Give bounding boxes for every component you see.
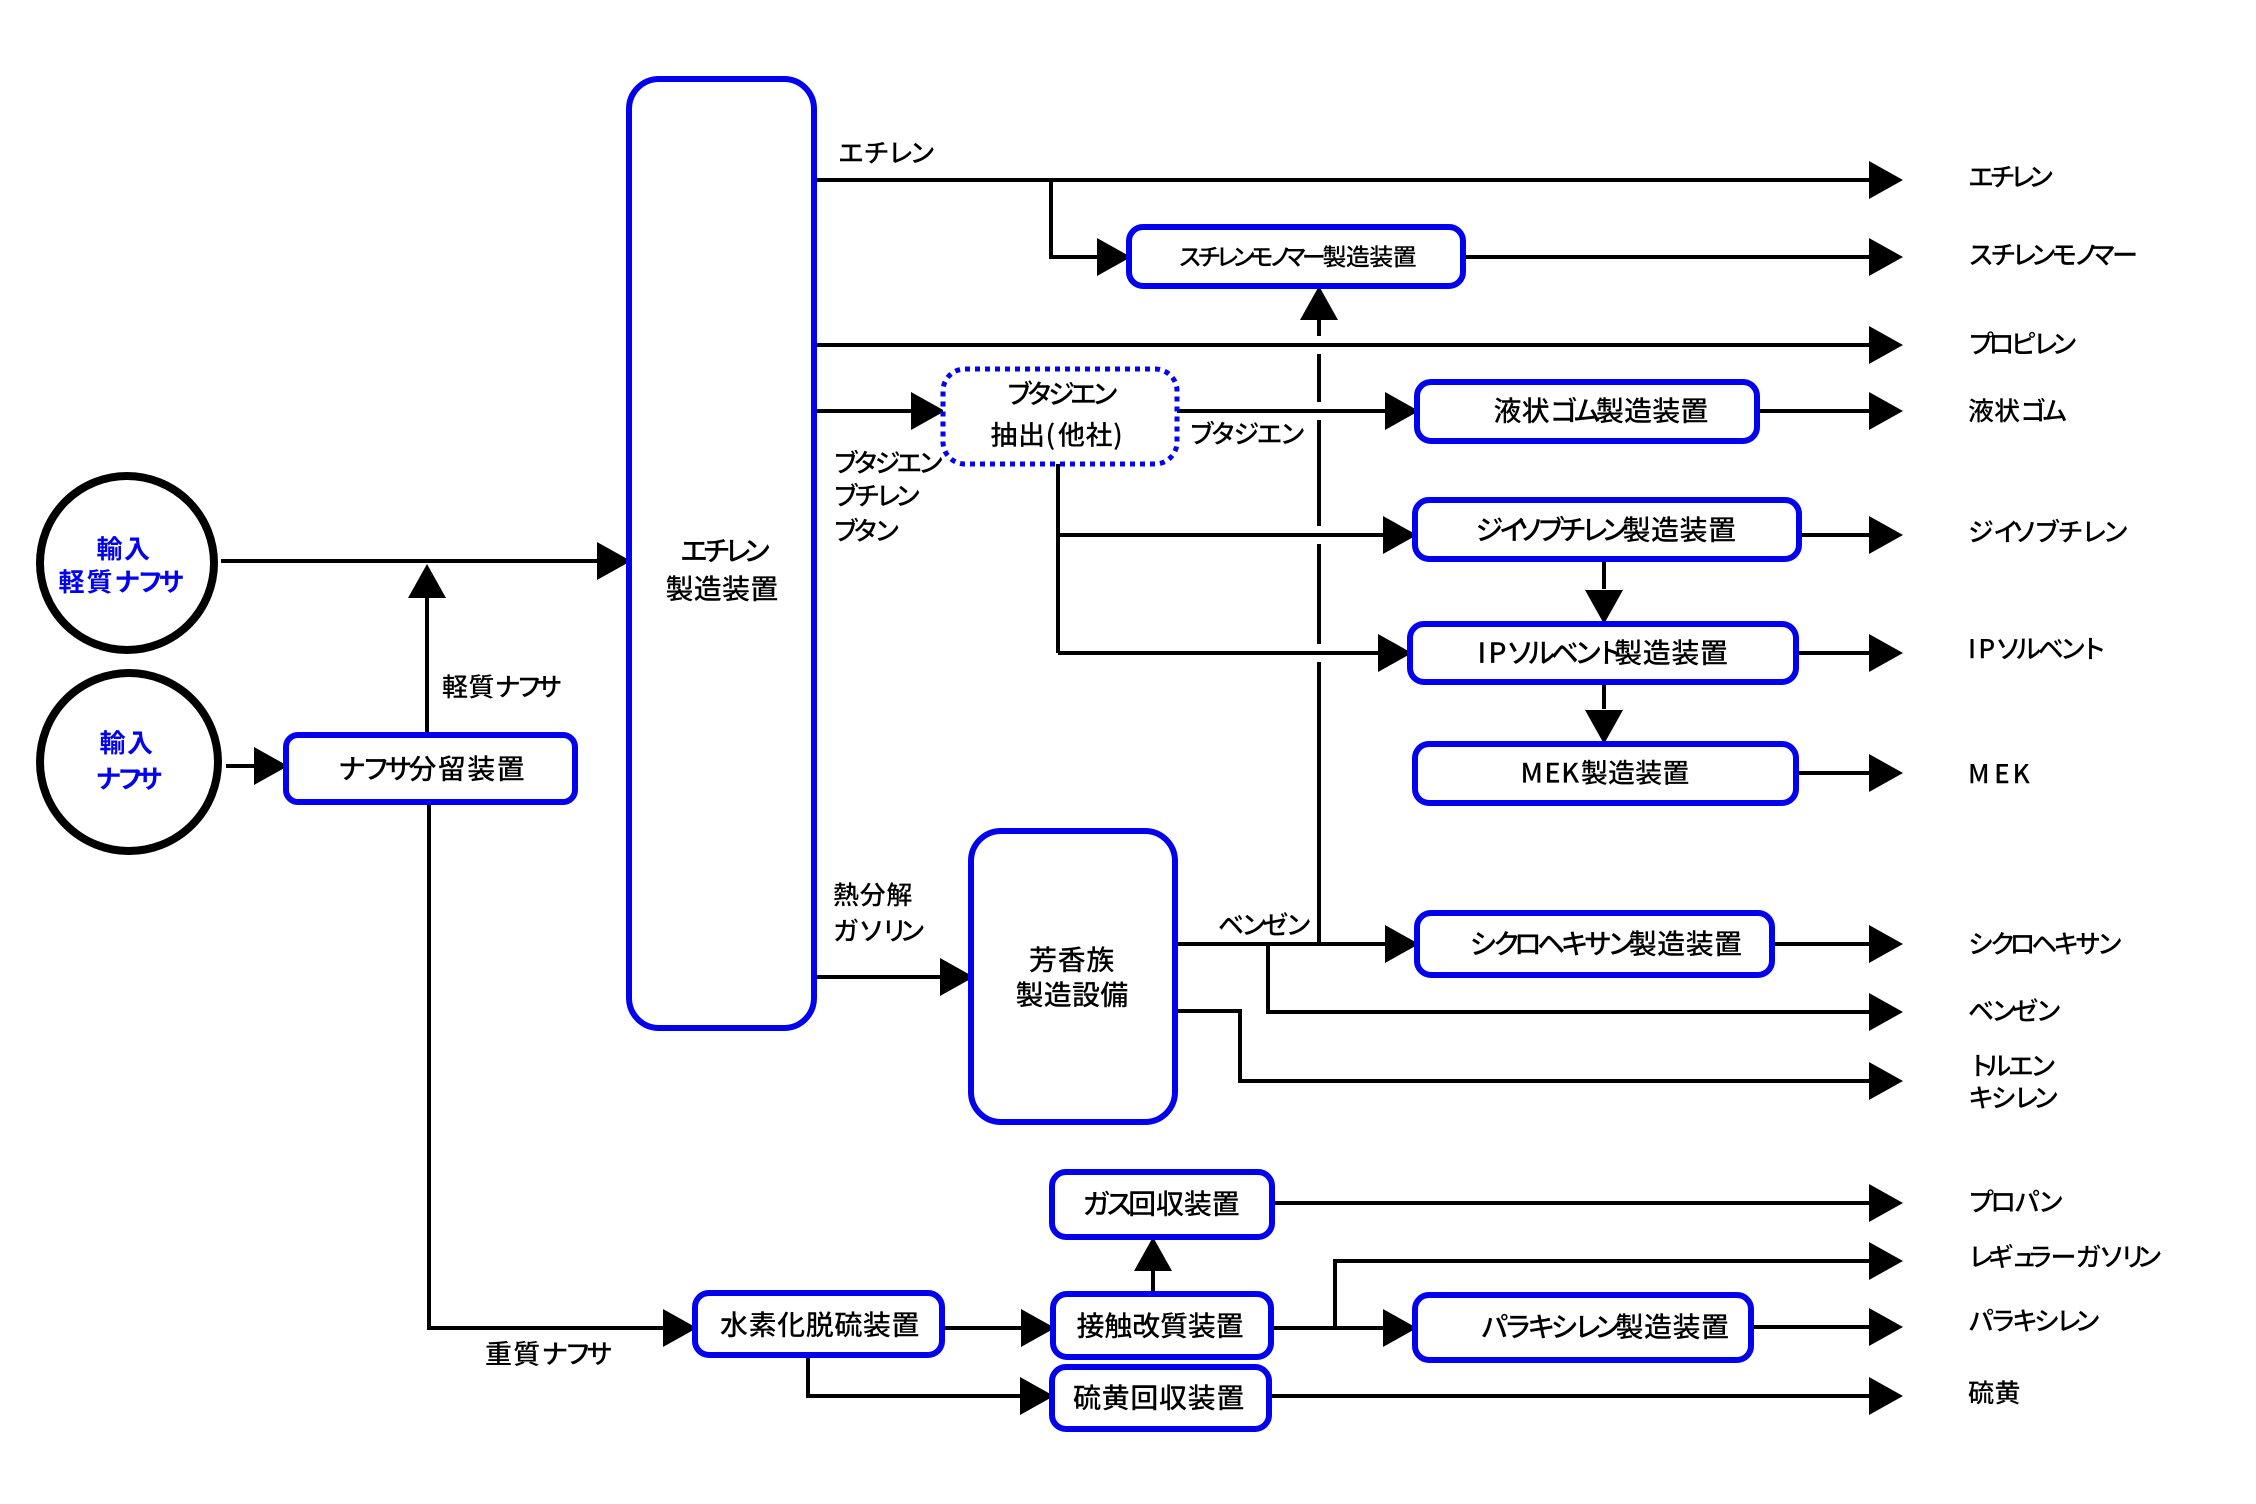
box パラキシレン製造装置	[1415, 1295, 1751, 1360]
wire 軽質ナフサ vertical x427	[408, 564, 446, 735]
box ナフサ分留装置	[286, 735, 575, 802]
wire branch → スチレンモノマー製造装置	[1051, 180, 1131, 276]
box 接触改質装置	[1053, 1294, 1271, 1357]
label output MEK	[1971, 764, 2030, 783]
wire 輸入ナフサ → ナフサ分留装置 (y766)	[226, 747, 288, 785]
wire MEK output	[1796, 754, 1903, 792]
box 芳香族製造設備	[971, 831, 1175, 1122]
wire 熱分解ガソリン → 芳香族製造設備	[814, 958, 974, 996]
wire ブタジエン → 液状ゴム製造装置	[1177, 392, 1419, 430]
box スチレンモノマー製造装置	[1129, 227, 1463, 286]
wire ベンゼン → スチレンモノマー (vertical x1319 with crossing gaps)	[1300, 286, 1338, 944]
wire 水素化脱硫装置 → 硫黄回収装置	[808, 1355, 1054, 1415]
wire ジイソブチレン → IPソルベント	[1585, 559, 1623, 624]
wire レギュラーガソリン branch	[1335, 1242, 1903, 1328]
wire 輸入軽質ナフサ → エチレン製造装置 (y561)	[221, 542, 631, 580]
label output スチレンモノマー	[1970, 244, 2135, 266]
label output パラキシレン	[1969, 1309, 2098, 1332]
node 輸入軽質ナフサ (circle)	[40, 476, 214, 650]
wire プロピレン line (y345)	[814, 326, 1903, 364]
label 軽質ナフサ (wire)	[443, 674, 561, 698]
label ブタジエン ブチレン ブタン (wire)	[836, 450, 942, 542]
wire vertical below ブタジエン抽出 x1058	[1056, 464, 1060, 653]
wire 重質ナフサ: ナフサ分留装置 → 水素化脱硫装置	[429, 802, 697, 1347]
wire シクロヘキサン output	[1772, 925, 1903, 963]
wire 接触改質装置 → ガス回収装置	[1134, 1237, 1172, 1294]
box IPソルベント製造装置	[1410, 624, 1796, 682]
wire 液状ゴム output	[1757, 392, 1903, 430]
label output シクロヘキサン	[1970, 932, 2121, 955]
node 輸入ナフサ (circle)	[40, 673, 218, 851]
box 液状ゴム製造装置	[1417, 382, 1757, 441]
label output IPソルベント	[1971, 638, 2103, 659]
label ブタジエン (wire, after 抽出)	[1192, 421, 1304, 445]
label 重質ナフサ (wire)	[486, 1341, 611, 1366]
box MEK製造装置	[1415, 744, 1796, 803]
box ガス回収装置	[1052, 1172, 1272, 1237]
wire パラキシレン output	[1751, 1308, 1903, 1346]
wire トルエン・キシレン output	[1176, 1011, 1903, 1100]
label output 硫黄	[1969, 1380, 2020, 1404]
wire 硫黄 output	[1269, 1377, 1903, 1415]
wire エチレン top line (y180)	[814, 161, 1903, 199]
wire IPソルベント output	[1796, 634, 1903, 672]
wire → ジイソブチレン製造装置 (y535)	[1058, 516, 1417, 554]
label output レギュラーガソリン	[1973, 1244, 2160, 1268]
wire IPソルベント → MEK製造装置	[1585, 682, 1623, 744]
wire ベンゼン output branch	[1268, 944, 1903, 1031]
label output トルエン キシレン	[1971, 1055, 2058, 1109]
box 水素化脱硫装置	[695, 1293, 942, 1355]
wire 接触改質装置 → パラキシレン製造装置	[1271, 1309, 1417, 1347]
label output プロピレン	[1971, 331, 2076, 354]
wire ジイソブチレン output	[1799, 516, 1903, 554]
label エチレン (wire)	[840, 142, 934, 164]
label output プロパン	[1971, 1189, 2062, 1212]
wire ベンゼン line → シクロヘキサン製造装置 (y944)	[1176, 925, 1419, 963]
wire 水素化脱硫装置 → 接触改質装置	[942, 1309, 1055, 1347]
wire ブタジエン・ブチレン・ブタン → ブタジエン抽出	[814, 392, 945, 430]
wire スチレンモノマー output	[1463, 238, 1903, 276]
label output 液状ゴム	[1969, 398, 2066, 423]
box ブタジエン抽出(他社) (dashed)	[943, 369, 1177, 464]
label output ベンゼン	[1969, 998, 2060, 1021]
box 硫黄回収装置	[1052, 1367, 1269, 1429]
wire → IPソルベント製造装置 (y653)	[1058, 634, 1412, 672]
label ベンゼン (wire)	[1219, 912, 1310, 935]
label output エチレン	[1970, 166, 2052, 188]
box シクロヘキサン製造装置	[1417, 913, 1772, 975]
wire プロパン output	[1272, 1184, 1903, 1222]
box エチレン製造装置	[629, 79, 814, 1028]
label 熱分解ガソリン (wire)	[834, 882, 924, 941]
label output ジイソブチレン	[1970, 519, 2127, 543]
box ジイソブチレン製造装置	[1415, 500, 1799, 559]
